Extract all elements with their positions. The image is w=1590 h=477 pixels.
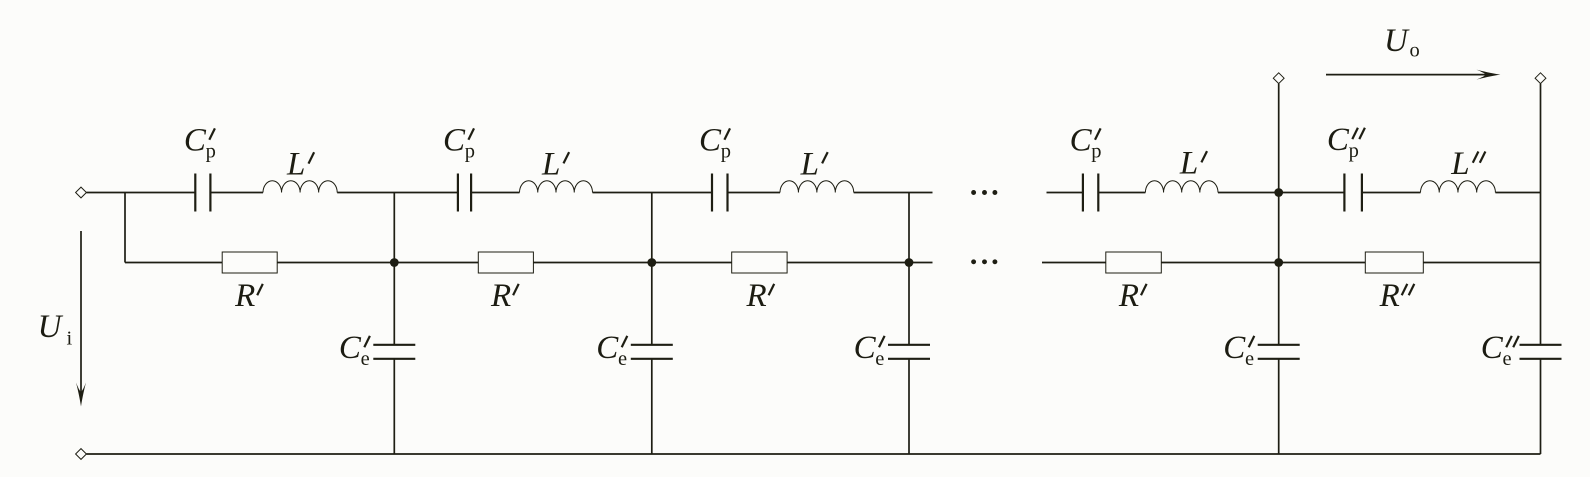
- svg-text:C: C: [699, 123, 722, 159]
- svg-text:C: C: [596, 330, 619, 366]
- svg-text:U: U: [38, 309, 64, 345]
- svg-text:L: L: [541, 146, 560, 182]
- svg-text:C: C: [1070, 123, 1093, 159]
- svg-text:C: C: [1481, 330, 1504, 366]
- svg-text:R: R: [746, 278, 767, 314]
- svg-text:C: C: [1223, 330, 1246, 366]
- svg-text:p: p: [206, 141, 216, 163]
- svg-text:p: p: [721, 141, 731, 163]
- svg-text:p: p: [465, 141, 475, 163]
- svg-text:C: C: [184, 123, 207, 159]
- svg-text:C: C: [854, 330, 877, 366]
- svg-text:R: R: [490, 278, 511, 314]
- svg-text:R: R: [234, 278, 255, 314]
- svg-text:p: p: [1349, 140, 1359, 162]
- svg-text:e: e: [1503, 348, 1512, 370]
- svg-text:e: e: [618, 348, 627, 370]
- svg-text:L: L: [1179, 145, 1198, 181]
- svg-text:C: C: [339, 330, 362, 366]
- svg-text:e: e: [1245, 348, 1254, 370]
- svg-text:R: R: [1379, 278, 1400, 314]
- svg-text:e: e: [361, 348, 370, 370]
- svg-text:L: L: [800, 146, 819, 182]
- svg-text:U: U: [1384, 23, 1410, 59]
- svg-text:i: i: [67, 328, 73, 350]
- svg-text:C: C: [443, 123, 466, 159]
- svg-text:L: L: [286, 147, 305, 183]
- svg-text:o: o: [1410, 39, 1420, 61]
- svg-text:p: p: [1091, 141, 1101, 163]
- svg-text:e: e: [875, 348, 884, 370]
- svg-text:C: C: [1327, 122, 1350, 158]
- svg-text:L: L: [1450, 146, 1469, 182]
- svg-text:R: R: [1118, 278, 1139, 314]
